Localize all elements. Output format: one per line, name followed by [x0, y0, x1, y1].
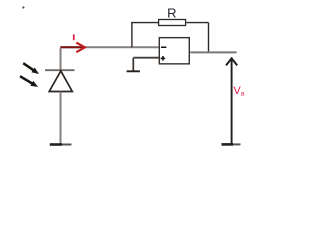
op-amp U1 body: [159, 38, 189, 64]
photodiode D1 triangle: [49, 71, 72, 92]
photodiode D1 cathode bar: [45, 69, 75, 71]
Va arrow vertical line: [231, 59, 233, 144]
op-amp plus pin mark: [161, 56, 166, 61]
wire: ground branch vertical: [132, 58, 134, 71]
light arrow 2: [20, 76, 38, 87]
svg-text:a: a: [241, 91, 245, 98]
ground bar at + input: [127, 70, 140, 72]
terminal bar under photodiode: [50, 143, 62, 146]
resistor R body: [159, 20, 186, 26]
wire: feedback top right: [186, 22, 208, 24]
wire: non-inverting input: [133, 57, 158, 59]
wire: inverting input net (photodiode cathode to op-amp minus): [61, 47, 159, 70]
wire: feedback right vertical: [208, 23, 210, 53]
op-amp minus pin mark: [161, 47, 166, 49]
current arrow I (red) tail over wire: [60, 46, 83, 48]
svg-text:R: R: [167, 6, 176, 21]
circuit: photodiode transimpedance amplifier: [0, 0, 309, 160]
light arrow 1: [23, 63, 39, 74]
wire: feedback left vertical: [131, 23, 133, 48]
wire: photodiode anode down: [60, 92, 62, 144]
terminal bar under Va arrow: [222, 143, 234, 146]
Va arrow head: [226, 58, 237, 65]
stray dot: [22, 6, 24, 8]
current arrow I (red) open head: [76, 43, 85, 53]
wire: output net: [190, 51, 236, 53]
wire: feedback top left: [131, 22, 158, 24]
label I (red): [73, 34, 75, 40]
